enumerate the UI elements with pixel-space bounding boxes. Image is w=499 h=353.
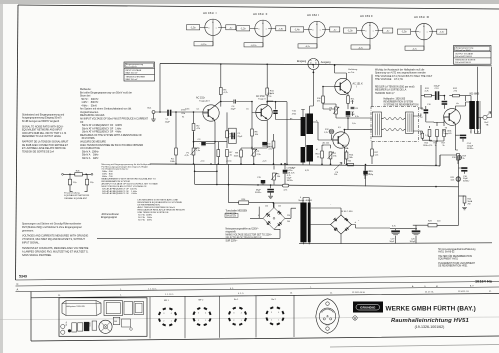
svg-text:Eingang: Eingang	[297, 60, 307, 63]
svg-text:1: 1	[278, 319, 279, 321]
border frame top line	[18, 5, 499, 9]
svg-text:AC 151r: AC 151r	[256, 95, 265, 98]
note block holder for reverb (bottom right)	[438, 248, 476, 268]
svg-text:C: C	[17, 282, 19, 286]
svg-text:C4 Gr: C4 Gr	[65, 321, 68, 326]
svg-text:Hallsystem 1926-265: Hallsystem 1926-265	[66, 305, 86, 308]
capacitor C10	[419, 106, 428, 120]
capacitor C6e black emitter bypass	[262, 142, 274, 151]
resistor eq left	[69, 174, 71, 179]
info box input voltage	[124, 62, 155, 81]
socket view Bu 2	[267, 299, 284, 325]
svg-text:MESURER LA SORTIE DE LA: MESURER LA SORTIE DE LA	[375, 89, 407, 92]
svg-text:Ersatzschaltung: Ersatzschaltung	[64, 192, 80, 195]
svg-text:REGLER LA TENSION (50Ω par seu: REGLER LA TENSION (50Ω par seuil)	[375, 86, 415, 89]
svg-text:25. 27. 31.: 25. 27. 31.	[425, 292, 434, 294]
svg-text:GRUNDIG: GRUNDIG	[360, 306, 376, 310]
wires T1 cluster	[194, 132, 228, 148]
svg-text:HV51 B-A-B-52: HV51 B-A-B-52	[438, 251, 455, 254]
resistor R13	[316, 148, 324, 164]
svg-text:eingestellt: eingestellt	[226, 231, 237, 234]
svg-text:30/35v: 30/35v	[467, 148, 474, 150]
svg-text:DE REVERBERATION HV51: DE REVERBERATION HV51	[438, 265, 468, 268]
reverb spring unit dashed box	[371, 107, 419, 142]
crease line	[0, 317, 499, 320]
transistor T3 AC151 K	[335, 78, 363, 94]
wire eq net top	[63, 173, 91, 175]
svg-text:c: c	[373, 31, 374, 33]
svg-text:240: 240	[287, 221, 290, 223]
note block mains selector (bottom middle)	[226, 228, 273, 243]
chassis layout drawing box	[59, 298, 147, 337]
svg-text:10k: 10k	[334, 174, 337, 176]
transistor pinout view AC 153 II	[344, 14, 393, 49]
capacitor C14	[455, 124, 474, 150]
svg-text:EQUIVALENT NETWORK AND INPUT: EQUIVALENT NETWORK AND INPUT	[22, 129, 63, 132]
svg-text:4: 4	[205, 313, 206, 315]
terminal left	[62, 173, 64, 175]
svg-text:16164 Ha: 16164 Ha	[475, 279, 493, 284]
chassis small blocks	[124, 302, 144, 315]
svg-text:4: 4	[241, 312, 242, 314]
svg-text:3: 3	[233, 312, 234, 314]
resistor R25	[348, 161, 354, 166]
svg-text:-1,4v: -1,4v	[294, 30, 300, 32]
strip separators	[149, 297, 151, 339]
svg-text:4,7k: 4,7k	[284, 190, 288, 192]
svg-text:A: A	[17, 288, 19, 292]
svg-text:Grün: Grün	[89, 323, 92, 327]
resistor R10 collector load	[266, 65, 275, 106]
wires bridge	[311, 208, 390, 244]
svg-text:AC 122: AC 122	[323, 142, 331, 145]
resistor R2	[192, 112, 201, 147]
svg-text:Trupp≥45: Trupp≥45	[443, 132, 452, 135]
svg-text:c: c	[216, 27, 217, 29]
resistor R23 series	[428, 220, 441, 227]
svg-text:2k: 2k	[463, 158, 465, 160]
resistor R22 power	[459, 196, 473, 210]
svg-text:11.14.15. 24.: 11.14.15. 24.	[458, 291, 469, 293]
transformer Tr1	[301, 114, 313, 148]
labels inside chassis	[89, 323, 92, 327]
socket view Bu 1	[229, 299, 246, 325]
spring squiggle lower	[383, 128, 404, 130]
svg-text:C18 4,7k: C18 4,7k	[287, 173, 295, 175]
capacitor C3 emitter bypass	[195, 139, 206, 152]
svg-text:125: 125	[278, 206, 281, 208]
svg-text:MAX 150 mV: MAX 150 mV	[126, 78, 138, 81]
wire T2 collector run	[267, 101, 287, 103]
potentiometer P1	[185, 148, 197, 164]
svg-text:5349: 5349	[19, 274, 27, 278]
ground rail bottom	[299, 242, 492, 245]
node label 2765	[181, 109, 186, 118]
svg-text:AC 151r III: AC 151r III	[414, 15, 429, 19]
svg-text:4: 4	[171, 313, 172, 315]
svg-text:4. 5. 9.: 4. 5. 9.	[238, 293, 244, 295]
svg-text:60 dB bezogen auf 800Hz Vergle: 60 dB bezogen auf 800Hz Vergleich	[22, 120, 60, 123]
wires transformer leads	[301, 72, 313, 164]
output jack Bu2	[478, 67, 491, 127]
svg-text:c: c	[427, 32, 428, 34]
verticals from main rail to second rail	[195, 164, 229, 184]
svg-text:1. 1. 13. 1.: 1. 1. 13. 1.	[165, 294, 174, 296]
svg-text:801-8860: 801-8860	[470, 93, 480, 95]
wire transformer top to rail	[303, 198, 309, 245]
svg-text:30/35v: 30/35v	[287, 180, 293, 182]
svg-text:EQUIPMENT HV51: EQUIPMENT HV51	[438, 259, 458, 261]
svg-text:100µF: 100µF	[434, 85, 441, 87]
transistor T2 AC151r II	[256, 95, 272, 121]
selector switch diamond	[258, 206, 290, 230]
chassis transformer block	[104, 301, 123, 316]
bottom page shadow line	[330, 345, 499, 348]
capacitor C5 boxed	[229, 128, 243, 143]
svg-text:Störabstand und Eingangsspannu: Störabstand und Eingangsspannung und	[22, 113, 65, 116]
svg-text:3,2k: 3,2k	[451, 179, 455, 181]
svg-text:-0,15v: -0,15v	[201, 44, 208, 46]
svg-text:-0,12v: -0,12v	[251, 45, 258, 47]
capacitor C8e black	[346, 111, 356, 116]
resistor R8	[251, 113, 259, 149]
svg-text:REVERBERATION SYSTEM: REVERBERATION SYSTEM	[384, 101, 414, 104]
wire collector branch down	[286, 102, 288, 164]
svg-text:WERKE GMBH FÜRTH (BAY.): WERKE GMBH FÜRTH (BAY.)	[386, 304, 476, 313]
wire top rail right segment and drop	[421, 85, 466, 101]
svg-text:MAINS VOLTAGE SELECTOR SET TO: MAINS VOLTAGE SELECTOR SET TO 220V~	[226, 234, 273, 237]
svg-text:Trupp II: Trupp II	[258, 98, 266, 101]
wire T4 connections	[313, 122, 373, 164]
note block voltages measured (bottom left)	[22, 223, 89, 257]
capacitor C8	[351, 100, 359, 116]
wire C4 to T2 base	[252, 102, 261, 113]
svg-text:Eingangssignal: Eingangssignal	[101, 217, 117, 219]
registered mark	[353, 316, 357, 321]
resistor R1	[170, 112, 177, 164]
svg-text:TENSION SUR 4,7: TENSION SUR 4,7	[375, 93, 395, 95]
note block tension fr (right)	[375, 86, 415, 95]
svg-text:56A: 56A	[345, 147, 349, 150]
svg-text:220: 220	[287, 215, 290, 217]
label collector net	[292, 110, 297, 115]
socket view MF 1	[159, 300, 176, 325]
svg-text:1. 1. 10. 1.: 1. 1. 10. 1.	[148, 289, 157, 291]
svg-text:2: 2	[163, 321, 164, 323]
trimmer R20	[451, 177, 461, 182]
reverb tank outline	[62, 301, 101, 316]
node base divider	[175, 111, 177, 113]
svg-text:(19-1326-1001/62): (19-1326-1001/62)	[415, 325, 445, 329]
capacitor C13b to ground	[442, 95, 448, 109]
svg-text:SUR 220V~: SUR 220V~	[226, 241, 239, 243]
wire base row bottom	[430, 141, 445, 164]
note block measurement network (center)	[102, 163, 159, 195]
resistor R6b	[226, 150, 233, 165]
bottom strip box	[31, 292, 499, 341]
transformer Tr2	[301, 145, 313, 163]
trimmer T4 base	[324, 129, 334, 134]
svg-text:-1,5v: -1,5v	[190, 27, 196, 29]
resistor R12	[449, 88, 465, 97]
third rail	[413, 224, 459, 226]
svg-text:CIRCUITS 60dB REL. 800 Hz THA: CIRCUITS 60dB REL. 800 Hz THAT 1:1 IS	[22, 132, 67, 135]
resistor R12a base	[317, 92, 324, 109]
label soldered to carrier	[348, 68, 358, 74]
wire caps to third rail	[390, 225, 416, 228]
svg-text:2: 2	[233, 320, 234, 322]
wire mid branch	[195, 170, 217, 172]
svg-text:1,2k: 1,2k	[324, 132, 328, 134]
resistor R11a	[267, 134, 275, 164]
top rail	[160, 64, 492, 66]
capacitor C21	[364, 166, 372, 179]
resistor R26 series on rail2	[282, 184, 288, 191]
second rail	[195, 184, 459, 187]
svg-text:-1,5v: -1,5v	[200, 161, 204, 163]
svg-text:AC 153 II: AC 153 II	[360, 14, 373, 18]
svg-text:TENSION DE SORTIE DE 2x4: TENSION DE SORTIE DE 2x4	[22, 151, 54, 153]
svg-text:1,2k: 1,2k	[375, 154, 379, 156]
svg-text:3: 3	[163, 313, 164, 315]
svg-text:AN INPUT VOLTAGE OF 50mV MUST: AN INPUT VOLTAGE OF 50mV MUST PRODUCE A …	[80, 118, 149, 121]
svg-text:25.: 25.	[58, 295, 61, 297]
svg-text:-1,3v: -1,3v	[347, 31, 353, 33]
trimmer R16	[457, 155, 467, 160]
svg-text:2,5v: 2,5v	[269, 148, 273, 150]
transistor T5 AC153 output	[443, 109, 460, 135]
svg-text:SANS SIGNAL D'ENTREE.: SANS SIGNAL D'ENTREE.	[22, 254, 52, 257]
svg-text:R: R	[354, 316, 356, 320]
capacitor C20	[410, 228, 421, 244]
svg-text:1: 1	[171, 321, 172, 323]
wire rail corner right	[439, 155, 441, 166]
transistor pinout view AC 151r I	[187, 11, 236, 46]
svg-text:AC 151r I: AC 151r I	[203, 11, 217, 15]
wire top rail left drop	[159, 64, 161, 113]
border frame left line	[16, 5, 19, 280]
note block measured values (center-left)	[80, 88, 149, 160]
svg-text:AC 152 I: AC 152 I	[307, 13, 319, 17]
svg-text:AC 153k: AC 153k	[443, 129, 452, 132]
svg-text:1k: 1k	[435, 145, 437, 147]
svg-text:10µF: 10µF	[231, 108, 237, 110]
transistor pinout view AC 151r III	[398, 15, 447, 50]
resistor R6	[226, 112, 235, 148]
svg-text:100µF: 100µF	[410, 241, 417, 243]
svg-text:Netzspannungswähler auf 220V~: Netzspannungswähler auf 220V~	[226, 228, 260, 231]
power transistor package AD149 TO-3	[316, 299, 339, 334]
wire shield vertical	[371, 75, 373, 150]
svg-text:Raumhalleinrichtung HV51: Raumhalleinrichtung HV51	[391, 318, 469, 324]
svg-text:500 mV A 1500 Ω: 500 mV A 1500 Ω	[455, 61, 471, 64]
transistor T4 AC122	[333, 132, 349, 150]
svg-text:SIGNAL TO NOISE RATIO WITH EQ: SIGNAL TO NOISE RATIO WITH EQUI-	[22, 125, 64, 128]
resistor R11	[421, 88, 431, 97]
GRUNDIG logo	[353, 302, 383, 313]
svg-text:A. V.: A. V.	[470, 285, 474, 288]
svg-text:0,4v: 0,4v	[290, 168, 294, 170]
svg-text:3: 3	[271, 312, 272, 314]
note block mesures fr (center)	[138, 198, 186, 221]
svg-text:AC 151 K: AC 151 K	[353, 83, 364, 86]
svg-text:SELECTEUR DE TENSION REGLE: SELECTEUR DE TENSION REGLE	[226, 238, 263, 240]
resistor R spring out	[421, 131, 429, 140]
transistor pinout view AC 152 I	[291, 13, 340, 48]
capacitor C13	[431, 85, 444, 100]
svg-text:INPUT SIGNAL.: INPUT SIGNAL.	[22, 242, 40, 245]
wire mains line long	[97, 229, 280, 238]
resistor R17b	[434, 123, 446, 147]
label reverb system	[384, 99, 419, 107]
svg-text:AC 151r II: AC 151r II	[253, 12, 268, 16]
svg-text:110: 110	[265, 206, 268, 208]
svg-text:Ausgangsspannnung (Eingang 50m: Ausgangsspannnung (Eingang 50mV)	[22, 117, 62, 120]
capacitor C15	[255, 177, 265, 194]
svg-text:0,1µ: 0,1µ	[268, 93, 273, 95]
capacitor C23 below rail2	[267, 184, 274, 198]
capacitor C1	[165, 110, 172, 124]
svg-text:500 mV an 80kΩ: 500 mV an 80kΩ	[456, 50, 471, 52]
svg-text:B 30 C 450: B 30 C 450	[342, 211, 354, 213]
svg-text:c: c	[266, 28, 267, 30]
svg-text:25µF: 25µF	[238, 136, 244, 138]
svg-text:12.13.15.14.16.: 12.13.15.14.16.	[352, 292, 366, 294]
svg-text:DE 60dB AVEC CONNECTION ENTREE: DE 60dB AVEC CONNECTION ENTREE ET	[22, 144, 69, 147]
svg-text:-1,2v: -1,2v	[240, 28, 246, 30]
svg-text:Tonschalter MESSEN: Tonschalter MESSEN	[226, 210, 248, 213]
svg-text:30mV A 4kHz: 30mV A 4kHz	[80, 157, 99, 160]
wire T1 emitter	[213, 120, 216, 164]
svg-text:Ausgang: Ausgang	[321, 61, 331, 64]
svg-text:30/35v: 30/35v	[463, 181, 470, 183]
svg-text:470k: 470k	[292, 113, 296, 115]
svg-text:1,6v: 1,6v	[352, 123, 356, 125]
info box output voltage	[454, 46, 492, 65]
svg-text:500 mV AT 1500 Ω: 500 mV AT 1500 Ω	[455, 55, 472, 58]
resistor R14	[345, 150, 354, 164]
svg-text:DIN 41524: DIN 41524	[226, 215, 237, 217]
chassis lower components	[61, 317, 133, 334]
wire spring out to base network	[426, 114, 434, 123]
svg-text:6,3v: 6,3v	[392, 226, 396, 228]
wire T1 collector	[214, 101, 221, 106]
svg-text:c: c	[320, 29, 321, 31]
resistor R shield	[371, 149, 379, 164]
svg-text:8860: 8860	[326, 324, 330, 326]
resistor R2b series	[75, 173, 83, 176]
svg-text:-1,5v: -1,5v	[401, 32, 407, 34]
wire left joint of R11 row	[421, 96, 424, 109]
svg-text:-6v: -6v	[456, 103, 459, 105]
wire T5 base	[444, 117, 449, 123]
rectifier bridge B30 C450	[331, 211, 354, 234]
svg-text:10.: 10.	[290, 293, 293, 295]
svg-text:-Röhrenvoltmeter: -Röhrenvoltmeter	[101, 213, 119, 216]
wire T2 emitter/base bottom	[241, 120, 267, 150]
svg-text:Verlötung: Verlötung	[348, 68, 358, 71]
svg-text:2W: 2W	[468, 203, 471, 205]
main bottom rail	[150, 164, 440, 166]
svg-text:PLACEMENT POUR L'EQUIPMENT: PLACEMENT POUR L'EQUIPMENT	[438, 262, 475, 265]
input terminal Bu1	[148, 108, 156, 114]
resistor R9	[234, 148, 243, 164]
svg-text:Hallspulen 1926-265: Hallspulen 1926-265	[384, 99, 406, 101]
svg-text:MAX 150 mV: MAX 150 mV	[126, 72, 138, 75]
resistor R12e emitter	[347, 96, 356, 104]
svg-text:RAPPORT DE LA TENSION SIGNAL-B: RAPPORT DE LA TENSION SIGNAL-BRUIT	[22, 140, 69, 143]
wire T5 collector to transformer	[455, 102, 469, 110]
svg-text:180k+4,7k: 180k+4,7k	[423, 145, 432, 147]
transistor T1 AC151r	[196, 97, 219, 122]
potentiometer P6	[334, 163, 342, 177]
svg-text:1: 1	[241, 320, 242, 322]
svg-text:2: 2	[271, 319, 272, 321]
svg-text:10µF: 10µF	[165, 121, 171, 123]
svg-text:RESEAU EQUIVALENT: RESEAU EQUIVALENT	[64, 197, 87, 200]
resistor NTC	[452, 135, 459, 164]
resistor R7	[217, 142, 220, 164]
svg-text:EQUIVALENT NETWORK: EQUIVALENT NETWORK	[64, 194, 89, 197]
capacitor C4 coupling	[221, 100, 252, 111]
resistor R24	[239, 199, 249, 204]
svg-text:-1,2v: -1,2v	[262, 161, 266, 163]
transistor pinout view AC 151r II	[237, 12, 286, 47]
svg-text:1: 1	[205, 320, 206, 322]
svg-text:Netztr. 400-01: Netztr. 400-01	[299, 199, 314, 202]
svg-text:max 150mV: max 150mV	[126, 66, 137, 68]
svg-text:3: 3	[198, 313, 199, 315]
svg-text:4. 5.: 4. 5.	[230, 288, 234, 290]
svg-text:30/35v: 30/35v	[255, 192, 262, 194]
svg-text:47k: 47k	[317, 100, 320, 102]
svg-text:1k: 1k	[329, 110, 331, 112]
output transformer 801-8860	[469, 93, 480, 129]
potentiometer P4	[322, 145, 337, 164]
wire selector to transformer	[250, 203, 301, 218]
svg-text:ET L'ENTREE LIGNE RELATIF 800: ET L'ENTREE LIGNE RELATIF 800Hz DE	[22, 147, 66, 150]
svg-text:0: 0	[258, 215, 259, 217]
svg-text:2: 2	[198, 320, 199, 322]
note block reverb exchange warning (right)	[375, 69, 433, 82]
note tone switch	[225, 210, 248, 218]
resistor R5	[219, 64, 228, 107]
transducer coil right	[405, 112, 413, 133]
transducer coil left	[372, 112, 381, 137]
svg-text:HALTER FÜR REVERBERATION: HALTER FÜR REVERBERATION	[438, 255, 472, 258]
scan edge left	[0, 4, 3, 353]
potentiometer P5	[271, 166, 281, 185]
svg-text:THE VOLTAGE AT 4,7Ω: THE VOLTAGE AT 4,7Ω	[375, 78, 403, 81]
capacitor C9 black	[363, 165, 374, 187]
svg-text:Trupp=40 I: Trupp=40 I	[199, 100, 210, 103]
wire T2 collector to C6	[267, 101, 273, 105]
resistor R16b	[434, 122, 439, 147]
svg-text:gn: gn	[290, 118, 292, 120]
svg-text:-0,15v: -0,15v	[226, 161, 232, 163]
svg-text:gemessen.: gemessen.	[22, 229, 34, 232]
wire lower branch	[229, 185, 274, 208]
wire T3 emitter to spring drive	[323, 92, 372, 130]
svg-text:REFERRED TO 2x4 OUTPUT LEVEL: REFERRED TO 2x4 OUTPUT LEVEL	[22, 136, 62, 138]
scan edge top	[0, 0, 499, 4]
terminal right	[91, 173, 93, 175]
capacitor C19	[390, 229, 400, 244]
labels under Tr2	[287, 168, 297, 175]
svg-text:0,3v: 0,3v	[355, 116, 359, 118]
svg-text:27.: 27.	[489, 291, 492, 293]
svg-text:9k: 9k	[182, 116, 184, 118]
